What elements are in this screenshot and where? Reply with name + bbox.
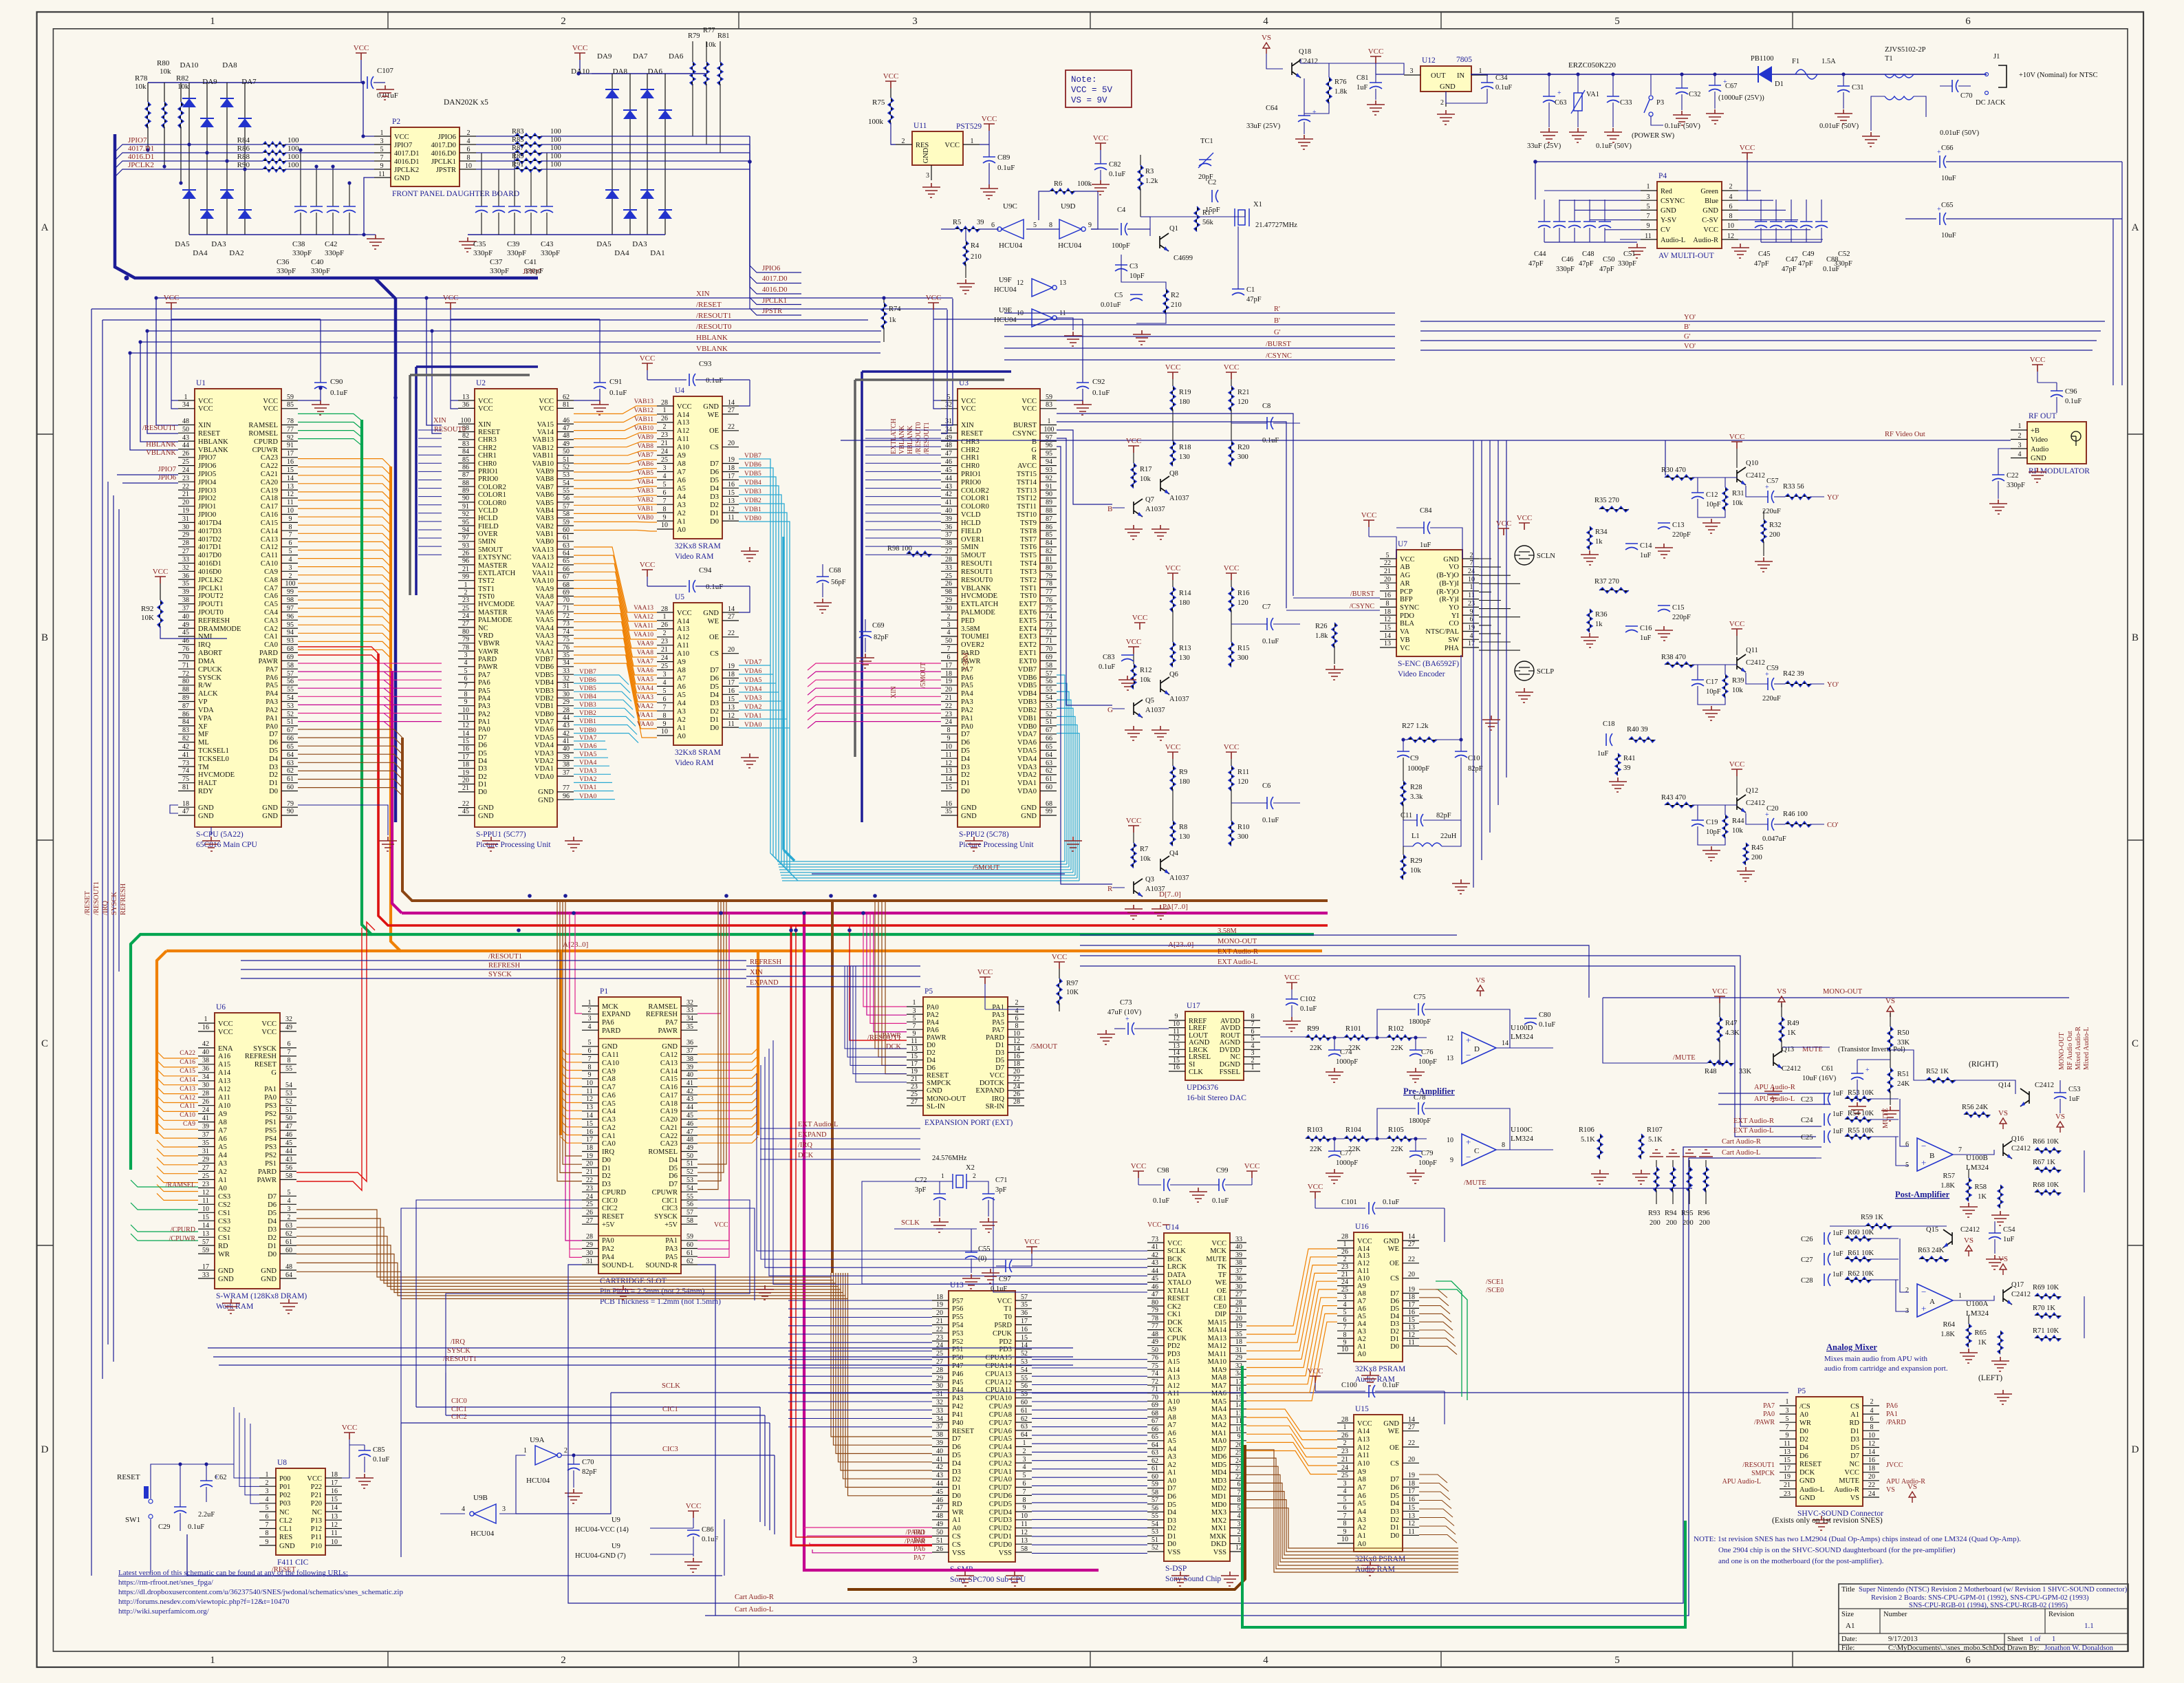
svg-text:WE: WE	[708, 618, 719, 625]
svg-text:28: 28	[936, 1366, 943, 1374]
wire group2 right vertical	[749, 136, 750, 169]
svg-text:67: 67	[563, 573, 570, 581]
svg-text:VAA7: VAA7	[637, 658, 653, 665]
resistor R58	[1998, 1185, 2003, 1208]
svg-text:49: 49	[563, 440, 570, 448]
svg-text:1uF: 1uF	[2068, 1095, 2080, 1103]
svg-text:A15: A15	[1167, 1358, 1180, 1366]
svg-text:SW1: SW1	[125, 1516, 140, 1524]
svg-text:RD: RD	[218, 1243, 228, 1250]
svg-text:6: 6	[588, 1047, 592, 1055]
svg-text:C: C	[1474, 1147, 1479, 1155]
svg-text:330pF: 330pF	[311, 267, 330, 275]
svg-text:33: 33	[945, 564, 952, 572]
svg-text:63: 63	[1046, 760, 1052, 767]
svg-text:DRAMMODE: DRAMMODE	[198, 625, 241, 633]
svg-text:FRONT PANEL DAUGHTER BOARD: FRONT PANEL DAUGHTER BOARD	[392, 190, 519, 198]
svg-text:59: 59	[202, 1247, 209, 1254]
svg-text:VO': VO'	[1684, 343, 1696, 350]
svg-text:MA3: MA3	[1211, 1414, 1226, 1422]
svg-text:29: 29	[586, 1241, 593, 1249]
svg-text:13: 13	[202, 1230, 209, 1238]
svg-text:A9: A9	[1357, 1283, 1366, 1290]
wire red to U6	[296, 922, 375, 1181]
svg-text:RDY: RDY	[198, 788, 214, 795]
svg-text:P02: P02	[279, 1492, 290, 1499]
svg-text:R38 470: R38 470	[1661, 654, 1686, 661]
svg-text:A5: A5	[1167, 1437, 1176, 1445]
thick gray feed U2	[409, 375, 411, 595]
svg-text:Q11: Q11	[1746, 647, 1758, 654]
svg-text:3.3k: 3.3k	[1410, 793, 1423, 801]
svg-text:16: 16	[728, 687, 735, 695]
svg-text:C9: C9	[1410, 755, 1418, 762]
svg-text:57: 57	[1046, 670, 1052, 678]
svg-text:AGND: AGND	[1220, 1039, 1241, 1047]
ground	[962, 1274, 980, 1289]
svg-text:GND: GND	[538, 789, 554, 796]
svg-text:Cart Audio-R: Cart Audio-R	[735, 1594, 774, 1601]
svg-text:16: 16	[728, 481, 735, 489]
svg-text:TST3: TST3	[1020, 568, 1037, 576]
resistor R30	[1665, 475, 1694, 480]
svg-text:12: 12	[1013, 1038, 1020, 1045]
svg-text:VAB8: VAB8	[536, 475, 554, 483]
svg-text:30: 30	[945, 605, 952, 612]
svg-text:JPCLK1: JPCLK1	[431, 158, 456, 166]
ground	[1326, 1169, 1343, 1183]
svg-text:A0: A0	[1357, 1351, 1366, 1358]
svg-text:28: 28	[1235, 1299, 1242, 1307]
svg-text:50: 50	[686, 1153, 693, 1160]
capacitor C37	[530, 169, 532, 206]
svg-text:SNS-CPU-RGB-01 (1994), SNS-CPU: SNS-CPU-RGB-01 (1994), SNS-CPU-RGB-02 (1…	[1909, 1602, 2068, 1609]
svg-text:10k: 10k	[1732, 827, 1744, 835]
svg-text:VAB12: VAB12	[634, 407, 654, 414]
wire mono-out link	[1457, 945, 1589, 998]
svg-text:SW: SW	[1448, 636, 1459, 644]
svg-text:R99: R99	[1307, 1025, 1319, 1033]
svg-text:R66 10K: R66 10K	[2033, 1138, 2059, 1146]
svg-text:21: 21	[462, 566, 469, 573]
svg-text:39: 39	[1235, 1252, 1242, 1259]
svg-text:1uF: 1uF	[1640, 634, 1652, 642]
svg-text:6: 6	[1870, 1415, 1874, 1423]
svg-text:Audio-L: Audio-L	[1661, 237, 1685, 244]
svg-text:NC: NC	[1849, 1461, 1859, 1468]
svg-text:VCC: VCC	[342, 1424, 358, 1432]
svg-text:330pF: 330pF	[2007, 482, 2025, 489]
svg-text:VDB0: VDB0	[744, 515, 761, 522]
svg-text:41: 41	[1152, 1243, 1158, 1251]
svg-text:BURST: BURST	[1013, 422, 1037, 429]
ground	[1152, 726, 1169, 740]
svg-text:S-PPU2 (5C78): S-PPU2 (5C78)	[959, 830, 1009, 839]
svg-text:100: 100	[550, 161, 561, 169]
svg-text:COLOR1: COLOR1	[961, 495, 989, 502]
svg-text:R21: R21	[1237, 389, 1250, 396]
svg-text:COLOR2: COLOR2	[478, 484, 506, 491]
svg-text:/5MOUT: /5MOUT	[920, 663, 927, 688]
svg-text:EXPAND: EXPAND	[798, 1131, 827, 1139]
svg-text:0.1uF: 0.1uF	[188, 1523, 204, 1531]
svg-text:GND: GND	[1021, 804, 1037, 812]
svg-text:C65: C65	[1941, 202, 1954, 209]
svg-text:0.1uF: 0.1uF	[1262, 638, 1279, 645]
svg-text:(B-Y)I: (B-Y)I	[1439, 580, 1459, 588]
svg-text:10: 10	[331, 1539, 338, 1546]
resistor R61	[1845, 1256, 1871, 1262]
svg-text:0.1uF: 0.1uF	[330, 389, 347, 397]
svg-text:RES: RES	[279, 1534, 292, 1541]
svg-text:NC: NC	[312, 1509, 322, 1516]
svg-text:15: 15	[462, 738, 469, 745]
svg-text:GND: GND	[1021, 813, 1037, 820]
svg-text:D5: D5	[1390, 1305, 1399, 1313]
svg-text:64: 64	[285, 1272, 292, 1279]
bus PA verticals from U3	[808, 663, 941, 670]
svg-text:VCC: VCC	[1024, 1238, 1040, 1246]
svg-text:VCC: VCC	[198, 398, 213, 405]
svg-text:38: 38	[945, 539, 952, 547]
svg-text:HBLANK: HBLANK	[907, 425, 914, 454]
svg-text:DMA: DMA	[198, 658, 215, 665]
svg-text:Blue: Blue	[1705, 197, 1718, 205]
svg-text:10: 10	[1173, 1020, 1180, 1028]
svg-text:CA11: CA11	[261, 552, 278, 559]
svg-text:MA12: MA12	[1208, 1342, 1226, 1350]
resistor R57	[1968, 1170, 1969, 1178]
svg-text:18: 18	[462, 761, 469, 769]
ground	[1628, 244, 1646, 258]
svg-text:VCC: VCC	[261, 1029, 277, 1036]
wire CIC0	[416, 1406, 760, 1408]
ground	[1437, 110, 1455, 125]
svg-text:MA2: MA2	[1211, 1422, 1226, 1429]
svg-text:10: 10	[1447, 1137, 1453, 1144]
wire net /RESET	[91, 308, 947, 310]
svg-text:A3: A3	[1357, 1516, 1366, 1524]
svg-text:6: 6	[266, 1513, 269, 1521]
svg-text:R57: R57	[1943, 1172, 1955, 1180]
svg-text:36: 36	[945, 524, 952, 531]
svg-text:6: 6	[1470, 616, 1473, 623]
svg-text:JPOUT1: JPOUT1	[198, 601, 224, 608]
wire mono vertical	[1603, 998, 1678, 1063]
svg-text:R12: R12	[1140, 667, 1152, 674]
IC U7	[1380, 540, 1479, 678]
svg-text:C2412: C2412	[2011, 1145, 2031, 1153]
svg-text:CIC1: CIC1	[662, 1197, 678, 1205]
svg-text:A0: A0	[218, 1185, 227, 1192]
svg-text:VRD: VRD	[478, 632, 494, 640]
svg-text:PA5: PA5	[266, 682, 278, 689]
svg-text:DA8: DA8	[613, 67, 628, 76]
svg-text:BCK: BCK	[1167, 1256, 1182, 1263]
svg-text:D0: D0	[1390, 1343, 1399, 1351]
bus D verticals to audio	[831, 901, 834, 1273]
ground	[856, 654, 874, 668]
svg-text:4016.D0: 4016.D0	[431, 150, 456, 158]
svg-text:21: 21	[462, 784, 469, 792]
svg-text:15: 15	[202, 1214, 209, 1221]
svg-text:VDB2: VDB2	[535, 695, 554, 703]
svg-text:75: 75	[563, 636, 570, 643]
svg-text:JPCLK2: JPCLK2	[198, 577, 223, 584]
svg-text:65: 65	[287, 743, 294, 751]
svg-text:VCC: VCC	[1729, 433, 1745, 441]
svg-text:Revision 2 Boards: SNS-CPU-GPM: Revision 2 Boards: SNS-CPU-GPM-01 (1992)…	[1871, 1594, 2089, 1602]
svg-text:210: 210	[971, 253, 982, 261]
svg-text:A8: A8	[677, 667, 686, 674]
svg-text:Super Nintendo (NTSC) Revision: Super Nintendo (NTSC) Revision 2 Motherb…	[1859, 1586, 2128, 1594]
svg-text:A1037: A1037	[1169, 696, 1189, 703]
svg-text:18: 18	[1384, 608, 1391, 616]
svg-text:TC1: TC1	[1200, 138, 1213, 145]
svg-text:58: 58	[1021, 1545, 1028, 1553]
svg-text:D5: D5	[710, 477, 719, 484]
svg-text:MD1: MD1	[1211, 1493, 1226, 1501]
svg-text:88: 88	[1046, 507, 1052, 515]
svg-text:54: 54	[1046, 694, 1052, 702]
svg-text:R82: R82	[176, 74, 188, 83]
svg-text:VPA: VPA	[198, 715, 212, 722]
svg-text:40: 40	[202, 1049, 209, 1056]
transistor Q1	[1160, 233, 1169, 251]
svg-text:VDA: VDA	[198, 707, 214, 714]
svg-text:VB: VB	[1400, 636, 1410, 644]
wire net HBLANK	[140, 341, 880, 343]
svg-text:JPIO6: JPIO6	[438, 133, 456, 141]
svg-text:57: 57	[202, 1239, 209, 1246]
resistor R107	[1639, 1134, 1644, 1159]
svg-text:CIC0: CIC0	[451, 1397, 467, 1405]
svg-text:R65: R65	[1974, 1329, 1987, 1337]
svg-text:23: 23	[661, 431, 668, 439]
svg-text:A4: A4	[1167, 1446, 1177, 1453]
svg-text:PARD: PARD	[258, 1168, 277, 1176]
svg-text:MA1: MA1	[1211, 1430, 1226, 1437]
svg-text:VBLANK: VBLANK	[898, 425, 906, 454]
ground	[367, 235, 385, 249]
ground	[565, 837, 583, 851]
svg-text:2: 2	[1870, 1398, 1874, 1406]
svg-text:C: C	[2132, 1038, 2139, 1049]
svg-text:B: B	[1032, 438, 1037, 446]
svg-text:26: 26	[462, 550, 469, 557]
svg-text:0.1uF: 0.1uF	[1383, 1199, 1399, 1206]
svg-text:50: 50	[182, 426, 189, 433]
svg-text:52: 52	[1046, 711, 1052, 718]
svg-text:92: 92	[462, 511, 469, 518]
svg-text:audio from cartridge and expan: audio from cartridge and expansion port.	[1824, 1364, 1948, 1373]
svg-text:YO': YO'	[1827, 681, 1839, 689]
capacitor C77	[1332, 1137, 1336, 1140]
svg-text:VCC: VCC	[1740, 144, 1755, 152]
svg-text:8: 8	[947, 727, 951, 734]
svg-text:31: 31	[182, 515, 189, 523]
svg-text:C35: C35	[473, 240, 486, 248]
svg-text:GND: GND	[1799, 1477, 1815, 1485]
svg-text:PS3: PS3	[265, 1102, 277, 1110]
capacitor C20	[1768, 818, 1774, 830]
svg-text:R45: R45	[1751, 844, 1764, 852]
svg-text:24: 24	[462, 612, 469, 620]
svg-text:Picture Processing Unit: Picture Processing Unit	[959, 841, 1034, 849]
svg-text:3: 3	[1386, 583, 1390, 591]
svg-text:CA16: CA16	[261, 511, 278, 519]
svg-text:PA1: PA1	[478, 718, 490, 726]
svg-text:HBLANK: HBLANK	[198, 438, 228, 446]
svg-text:69: 69	[1152, 1402, 1158, 1409]
svg-text:100: 100	[285, 580, 296, 588]
svg-text:7: 7	[913, 1022, 916, 1030]
svg-text:VAWR: VAWR	[478, 648, 499, 656]
svg-text:U16: U16	[1355, 1223, 1369, 1231]
wire net 4016.D1	[127, 160, 263, 162]
resistor R40	[1629, 737, 1655, 742]
svg-text:25: 25	[202, 1172, 209, 1180]
capacitor C85	[349, 1444, 365, 1446]
svg-text:4: 4	[663, 679, 667, 687]
svg-text:70: 70	[1046, 645, 1052, 653]
svg-text:A3: A3	[1167, 1453, 1176, 1461]
svg-text:−: −	[1921, 1141, 1926, 1151]
svg-text:45: 45	[285, 1139, 292, 1147]
ground	[957, 279, 975, 294]
svg-text:VAA2: VAA2	[535, 640, 554, 647]
svg-text:CPUD3: CPUD3	[989, 1516, 1012, 1524]
svg-text:81: 81	[182, 784, 189, 791]
diode DA9 (2)	[623, 110, 637, 119]
svg-text:C78: C78	[1414, 1094, 1426, 1102]
svg-text:32: 32	[563, 675, 570, 683]
svg-text:VS: VS	[1262, 34, 1271, 42]
svg-text:38: 38	[686, 1055, 693, 1063]
svg-text:R44: R44	[1732, 817, 1744, 825]
svg-text:IRQ: IRQ	[602, 1148, 615, 1156]
svg-text:/CSYNC: /CSYNC	[1350, 603, 1374, 610]
svg-text:PST529: PST529	[956, 122, 982, 131]
svg-text:9: 9	[266, 1539, 269, 1546]
svg-text:JPCLK2: JPCLK2	[394, 167, 419, 174]
svg-text:PAWR: PAWR	[257, 1177, 277, 1184]
svg-text:3pF: 3pF	[995, 1186, 1007, 1194]
svg-text:8: 8	[663, 712, 667, 720]
svg-text:+5V: +5V	[602, 1221, 615, 1229]
svg-text:PA6: PA6	[602, 1019, 614, 1027]
svg-text:C54: C54	[2003, 1226, 2015, 1234]
svg-text:9: 9	[289, 515, 292, 523]
svg-text:7: 7	[947, 645, 951, 653]
capacitor C62	[200, 1481, 213, 1487]
svg-text:32Kx8 SRAM: 32Kx8 SRAM	[675, 542, 721, 550]
svg-text:47: 47	[182, 808, 189, 815]
wire U17 to preamp	[1260, 1036, 1306, 1038]
svg-text:3: 3	[947, 621, 951, 629]
svg-text:RESET: RESET	[198, 430, 221, 438]
svg-text:NMI: NMI	[198, 633, 213, 641]
svg-text:VCC: VCC	[1021, 405, 1037, 413]
svg-text:78: 78	[1152, 1315, 1158, 1322]
svg-text:VAB8: VAB8	[637, 443, 653, 450]
svg-text:CPUA2: CPUA2	[989, 1460, 1012, 1468]
svg-text:R26: R26	[1315, 623, 1328, 630]
svg-text:30: 30	[936, 1382, 943, 1390]
svg-text:90: 90	[462, 495, 469, 502]
svg-text:SOUND-R: SOUND-R	[645, 1262, 678, 1269]
svg-text:A: A	[2132, 222, 2139, 233]
svg-text:S-CPU (5A22): S-CPU (5A22)	[196, 830, 244, 839]
svg-text:VDA2: VDA2	[579, 776, 597, 783]
svg-text:C31: C31	[1852, 84, 1864, 92]
svg-text:24: 24	[945, 718, 952, 726]
resistor R102	[1387, 1035, 1412, 1040]
svg-text:31: 31	[1235, 1347, 1242, 1354]
svg-text:1.8K: 1.8K	[1940, 1182, 1955, 1190]
ground	[1862, 132, 1880, 147]
svg-text:CO': CO'	[1827, 822, 1839, 829]
capacitor C41	[546, 153, 548, 206]
svg-text:C44: C44	[1534, 250, 1546, 258]
svg-text:77: 77	[1046, 588, 1052, 596]
svg-text:180: 180	[1179, 778, 1190, 786]
svg-text:D4: D4	[1799, 1444, 1809, 1452]
svg-text:13: 13	[911, 1045, 918, 1053]
svg-text:26: 26	[586, 1209, 593, 1216]
svg-text:SR-IN: SR-IN	[986, 1103, 1005, 1111]
svg-text:VDA1: VDA1	[534, 765, 554, 773]
svg-text:A7: A7	[677, 469, 686, 476]
svg-text:MXK: MXK	[1209, 1533, 1226, 1541]
svg-text:C67: C67	[1725, 83, 1738, 90]
svg-text:18: 18	[728, 464, 735, 472]
svg-text:R2: R2	[1171, 292, 1179, 299]
svg-text:MD2: MD2	[1211, 1485, 1226, 1492]
svg-text:38: 38	[182, 597, 189, 604]
svg-text:200: 200	[1666, 1219, 1677, 1227]
svg-text:MA6: MA6	[1211, 1390, 1226, 1397]
svg-text:PD3: PD3	[1167, 1351, 1180, 1358]
svg-text:CL2: CL2	[279, 1517, 292, 1525]
svg-text:PA4: PA4	[602, 1254, 614, 1261]
svg-text:VAA10: VAA10	[634, 632, 653, 639]
svg-text:40: 40	[945, 507, 952, 515]
svg-text:C2412: C2412	[2035, 1082, 2054, 1089]
svg-text:10: 10	[202, 1205, 209, 1213]
svg-text:VDB3: VDB3	[744, 489, 761, 495]
svg-text:VS: VS	[1964, 1236, 1974, 1245]
svg-text:1uF: 1uF	[1832, 1230, 1844, 1237]
svg-text:22: 22	[945, 703, 952, 710]
svg-text:85: 85	[1046, 531, 1052, 539]
svg-text:4017.D0: 4017.D0	[762, 275, 787, 283]
svg-text:R18: R18	[1179, 444, 1191, 451]
svg-text:−: −	[1921, 1287, 1926, 1297]
svg-text:PS1: PS1	[265, 1119, 277, 1126]
svg-text:R: R	[1107, 885, 1113, 893]
svg-text:VCC: VCC	[883, 72, 899, 81]
svg-text:PRIO0: PRIO0	[478, 475, 498, 483]
svg-text:CPUA12: CPUA12	[985, 1379, 1012, 1386]
svg-text:40: 40	[936, 1448, 943, 1455]
svg-text:CPUK: CPUK	[1167, 1335, 1187, 1342]
svg-text:33: 33	[202, 1272, 209, 1279]
svg-text:A12: A12	[677, 427, 689, 435]
svg-text:51: 51	[1046, 718, 1052, 726]
svg-text:RESOUT0: RESOUT0	[961, 577, 993, 584]
svg-text:VAB12: VAB12	[532, 444, 554, 452]
